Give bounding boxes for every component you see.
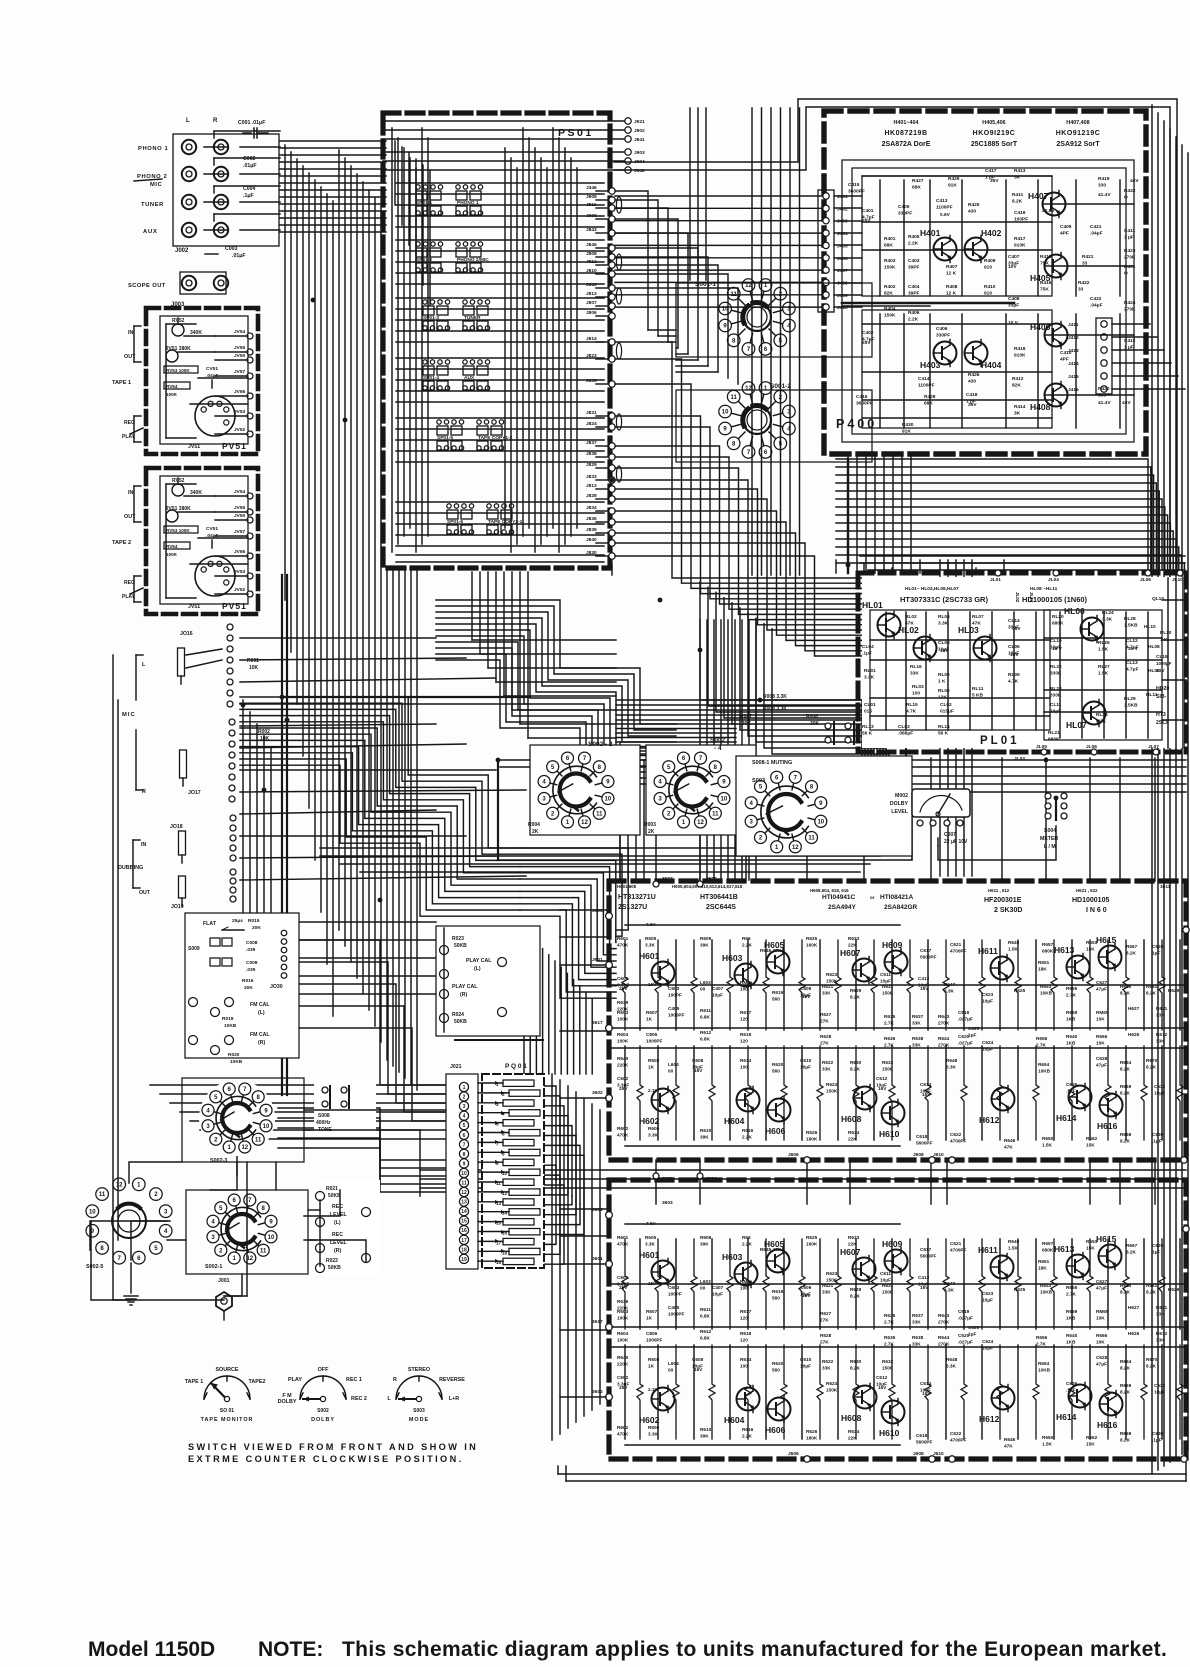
svg-text:2.1V: 2.1V (648, 1088, 659, 1093)
svg-text:O: O (1124, 195, 1128, 201)
svg-text:R008 3.3K: R008 3.3K (763, 706, 787, 712)
svg-text:H627: H627 (1128, 1305, 1140, 1310)
svg-text:R431: R431 (1124, 264, 1136, 270)
svg-text:C403: C403 (908, 258, 920, 264)
svg-text:R634: R634 (848, 1429, 860, 1434)
svg-text:R666: R666 (1096, 1034, 1108, 1039)
svg-text:3: 3 (463, 1104, 466, 1110)
svg-text:R612: R612 (700, 1030, 712, 1035)
svg-text:150K: 150K (884, 313, 896, 319)
muting connector pins (825, 723, 831, 729)
svg-text:R411: R411 (1012, 192, 1024, 198)
svg-text:R404: R404 (884, 306, 896, 312)
svg-text:C003: C003 (225, 246, 238, 252)
svg-text:27K: 27K (820, 1041, 829, 1046)
PV51 tape 2 inner box (160, 476, 248, 604)
svg-text:J609: J609 (706, 876, 717, 882)
svg-text:J845: J845 (586, 242, 597, 248)
svg-text:47K: 47K (1004, 1444, 1013, 1449)
svg-text:015μF: 015μF (940, 709, 954, 715)
svg-text:J903: J903 (634, 150, 645, 156)
wire bundle midfield over rotaries to meter (616, 700, 906, 789)
svg-text:HT313271U: HT313271U (618, 894, 656, 901)
svg-text:25V: 25V (619, 1385, 628, 1390)
svg-text:J021: J021 (450, 1064, 462, 1070)
svg-text:C417: C417 (985, 168, 997, 174)
svg-text:1KB: 1KB (1066, 1041, 1076, 1046)
transistor H403 (934, 342, 957, 365)
svg-text:160K: 160K (806, 1242, 818, 1247)
svg-text:R002: R002 (258, 729, 270, 735)
svg-text:C632: C632 (1154, 1383, 1166, 1388)
svg-text:C617: C617 (920, 948, 932, 953)
svg-text:R662: R662 (1086, 1136, 1098, 1141)
svg-text:J610: J610 (706, 1176, 717, 1182)
svg-text:LEVEL: LEVEL (330, 1212, 348, 1218)
pot RV52 tape 2 (172, 484, 184, 496)
svg-text:120: 120 (740, 1039, 748, 1044)
svg-text:HF200301E: HF200301E (984, 897, 1022, 904)
J021 connector (446, 1074, 478, 1269)
svg-text:10K: 10K (1096, 1017, 1105, 1022)
svg-text:12: 12 (241, 1145, 248, 1151)
svg-text:R: R (393, 1377, 397, 1383)
svg-text:R644: R644 (938, 1036, 950, 1041)
svg-text:150K: 150K (884, 265, 896, 271)
svg-text:L603: L603 (700, 980, 711, 985)
svg-text:1K: 1K (646, 1017, 653, 1022)
svg-text:1μF: 1μF (968, 1033, 976, 1038)
svg-text:TAPE 1: TAPE 1 (185, 1379, 203, 1385)
svg-text:RL15: RL15 (906, 702, 918, 708)
svg-text:.04μF: .04μF (1090, 303, 1103, 309)
svg-text:R650: R650 (1042, 1435, 1054, 1440)
svg-text:HL02: HL02 (898, 625, 919, 635)
svg-text:16 V: 16 V (1052, 646, 1063, 652)
amplifier channel dashed box y1180 (609, 1180, 1186, 1459)
svg-text:C409: C409 (1060, 224, 1072, 230)
svg-text:R609: R609 (700, 936, 712, 941)
transistor HL07 (1083, 702, 1106, 725)
svg-text:3.3K: 3.3K (864, 675, 875, 681)
transistor H616 (1100, 1094, 1123, 1117)
svg-text:1K: 1K (648, 1364, 655, 1369)
svg-text:41.4V: 41.4V (1098, 400, 1111, 406)
transistor H613b (1067, 1255, 1090, 1278)
P400 inner wire frames (842, 160, 1134, 442)
svg-text:44V: 44V (1122, 400, 1131, 406)
svg-text:33K: 33K (1156, 1338, 1165, 1343)
svg-text:10KB: 10KB (1038, 1368, 1051, 1373)
wire bundle staircase to PL01 bottom (700, 582, 862, 756)
svg-text:REVERSE: REVERSE (439, 1377, 465, 1383)
svg-text:J808: J808 (586, 251, 597, 257)
svg-text:J839: J839 (586, 527, 597, 533)
svg-text:340K: 340K (190, 330, 202, 336)
svg-text:H616: H616 (1097, 1121, 1118, 1131)
svg-text:8.2K: 8.2K (1120, 1067, 1131, 1072)
rotary switch S002-5 (133, 1178, 146, 1191)
svg-text:R601: R601 (617, 936, 629, 941)
svg-text:(R): (R) (334, 1248, 341, 1254)
PV51 head block tape 2 dashed box (146, 468, 258, 614)
svg-text:150K: 150K (826, 1388, 838, 1393)
svg-text:NOTE:: NOTE: (258, 1638, 323, 1661)
svg-text:C624: C624 (982, 1339, 994, 1344)
svg-text:H610: H610 (879, 1428, 900, 1438)
svg-text:10μF: 10μF (712, 993, 723, 998)
terminal column JO30 (281, 930, 287, 936)
svg-text:C617: C617 (920, 1247, 932, 1252)
svg-text:FM CAL: FM CAL (250, 1032, 270, 1038)
svg-text:2.7K: 2.7K (1036, 1342, 1047, 1347)
svg-text:J843: J843 (586, 282, 597, 288)
pot RV51 tape 2 (166, 510, 178, 522)
svg-text:R421: R421 (1082, 254, 1094, 260)
svg-text:R418: R418 (1014, 346, 1026, 352)
svg-text:20K: 20K (244, 985, 253, 991)
svg-text:12: 12 (116, 1182, 123, 1188)
svg-text:15K: 15K (1086, 1442, 1095, 1447)
svg-text:50KB: 50KB (328, 1193, 341, 1199)
svg-text:(L): (L) (474, 966, 481, 972)
svg-text:J824: J824 (586, 421, 597, 427)
svg-text:R020: R020 (228, 1052, 240, 1058)
svg-text:3602: 3602 (592, 1090, 603, 1096)
svg-text:C408: C408 (1008, 296, 1020, 302)
PS01 top terminals J921-J842 (625, 118, 631, 124)
svg-text:33K: 33K (1156, 1312, 1165, 1317)
svg-text:270K: 270K (938, 1320, 950, 1325)
svg-text:R640: R640 (617, 1355, 629, 1360)
svg-text:R643: R643 (938, 1313, 950, 1318)
rotary switch S002-4 (676, 774, 706, 807)
svg-text:680K: 680K (1042, 949, 1054, 954)
svg-text:10μF: 10μF (1154, 1390, 1165, 1395)
svg-text:R001: R001 (247, 658, 259, 664)
svg-text:18K: 18K (1038, 1266, 1047, 1271)
connector S004 (1045, 793, 1051, 799)
svg-text:R662: R662 (1086, 1435, 1098, 1440)
svg-text:120: 120 (740, 1316, 748, 1321)
svg-text:C618: C618 (916, 1433, 928, 1438)
svg-text:JL10: JL10 (1172, 577, 1183, 583)
svg-text:560: 560 (772, 1069, 780, 1074)
svg-text:7: 7 (463, 1142, 466, 1148)
svg-text:R656: R656 (1036, 1036, 1048, 1041)
wire bundle amp1 bottom to amp2 top (655, 1160, 657, 1204)
svg-text:19: 19 (461, 1257, 467, 1263)
transistor H608b (854, 1386, 877, 1409)
svg-text:S003: S003 (413, 1408, 425, 1414)
svg-text:R605: R605 (645, 936, 657, 941)
svg-text:68K: 68K (912, 185, 921, 191)
meter terminals (917, 820, 923, 826)
wire bundle mid-left horizontals to rotaries (150, 1084, 446, 1086)
svg-text:J601: J601 (592, 957, 603, 963)
svg-text:25V: 25V (619, 1086, 628, 1091)
svg-text:R644: R644 (938, 1335, 950, 1340)
wire bundle between amps (420, 1169, 1186, 1171)
svg-text:J806: J806 (586, 310, 597, 316)
svg-text:H405,406: H405,406 (982, 120, 1005, 126)
svg-text:IN: IN (141, 842, 146, 848)
svg-text:C624: C624 (982, 1040, 994, 1045)
transistor H408 (1045, 384, 1068, 407)
svg-text:91K: 91K (902, 429, 911, 435)
svg-text:MIC: MIC (150, 182, 163, 188)
svg-text:25V: 25V (862, 218, 871, 224)
svg-text:H610: H610 (879, 1129, 900, 1139)
resistor RV54 tape 1 (164, 382, 190, 389)
svg-text:I N 6 0: I N 6 0 (1086, 907, 1107, 914)
svg-text:HL08: HL08 (1148, 644, 1160, 650)
svg-text:1000PF: 1000PF (646, 1338, 663, 1343)
svg-text:R610: R610 (700, 1427, 712, 1432)
svg-text:H606: H606 (765, 1126, 786, 1136)
meter M002 (912, 789, 970, 817)
svg-text:REC 1: REC 1 (346, 1377, 362, 1383)
svg-text:CL13: CL13 (1126, 660, 1138, 666)
svg-text:R628: R628 (820, 1333, 832, 1338)
transistor H601b (652, 1261, 675, 1284)
transistor H608 (854, 1087, 877, 1110)
svg-text:33K: 33K (912, 1342, 921, 1347)
svg-text:R657: R657 (1042, 1241, 1054, 1246)
svg-text:O: O (1124, 271, 1128, 277)
svg-text:R405: R405 (908, 234, 920, 240)
svg-text:C628: C628 (1096, 1056, 1108, 1061)
wire bundle jack columns down (284, 145, 286, 600)
svg-text:R614: R614 (740, 1058, 752, 1063)
svg-text:30K: 30K (742, 721, 752, 727)
svg-text:R638: R638 (912, 1335, 924, 1340)
svg-text:16V: 16V (802, 994, 811, 999)
svg-text:10: 10 (817, 819, 824, 825)
svg-text:2SA872A DorE: 2SA872A DorE (882, 141, 931, 148)
svg-text:2.2K: 2.2K (742, 943, 753, 948)
transistor H604 (737, 1089, 760, 1112)
wire bundle PS01 bottom verticals to stair (471, 572, 473, 640)
svg-text:HT307331C (2SC733 GR): HT307331C (2SC733 GR) (900, 595, 988, 604)
svg-text:100K: 100K (617, 1338, 629, 1343)
PL01 interior mask (862, 577, 1182, 748)
svg-text:3.3K: 3.3K (946, 1364, 957, 1369)
head socket JV51 tape 1 (195, 396, 235, 436)
svg-text:27K: 27K (820, 1340, 829, 1345)
svg-text:C627: C627 (1096, 1279, 1108, 1284)
svg-text:(R): (R) (460, 992, 467, 998)
svg-text:J608: J608 (913, 1451, 924, 1457)
amp component verticals y1180 (622, 1239, 628, 1329)
svg-text:560: 560 (772, 997, 780, 1002)
svg-text:R609: R609 (700, 1235, 712, 1240)
terminal strip J401-J410 (818, 190, 834, 312)
svg-text:27K: 27K (820, 1019, 829, 1024)
svg-text:R618: R618 (740, 1032, 752, 1037)
svg-text:3603: 3603 (592, 908, 603, 914)
svg-text:10μF: 10μF (982, 1298, 993, 1303)
amp bottom terminals y1180 (804, 1456, 810, 1462)
svg-text:1.5K: 1.5K (1008, 947, 1019, 952)
svg-text:R016: R016 (242, 978, 254, 984)
svg-text:120: 120 (740, 1338, 748, 1343)
svg-text:This schematic diagram applies: This schematic diagram applies to units … (342, 1638, 1167, 1661)
svg-text:J828: J828 (586, 493, 597, 499)
terminals JV52-JV57 tape 2 (247, 493, 253, 499)
transistor H612 (992, 1088, 1015, 1111)
svg-text:10: 10 (721, 797, 728, 803)
svg-text:J610: J610 (933, 1451, 944, 1457)
svg-text:J002: J002 (175, 248, 189, 254)
PV51 tape 2 interior wires (166, 483, 196, 485)
svg-text:340K: 340K (190, 490, 202, 496)
svg-text:JV57: JV57 (234, 369, 246, 375)
svg-text:J412: J412 (1068, 335, 1079, 341)
PV51 tape 1 interior wires (166, 323, 196, 325)
PL01 dashed border (858, 571, 1186, 576)
wire bundle below PL01 (500, 759, 1186, 761)
svg-text:R654: R654 (1038, 1361, 1050, 1366)
svg-text:S002: S002 (710, 737, 726, 744)
svg-text:JL02: JL02 (1015, 592, 1020, 603)
svg-text:8.2K: 8.2K (1126, 1250, 1137, 1255)
svg-text:2.2K: 2.2K (742, 1434, 753, 1439)
gauge S003 MODE (396, 1376, 442, 1399)
svg-text:R415: R415 (1040, 254, 1052, 260)
transistor H616b (1100, 1393, 1123, 1416)
svg-text:33K: 33K (822, 991, 831, 996)
svg-text:10K: 10K (260, 736, 270, 742)
svg-text:50KB: 50KB (454, 1019, 467, 1025)
svg-text:H607: H607 (840, 1247, 861, 1257)
svg-text:C611: C611 (880, 1271, 891, 1276)
svg-text:JO17: JO17 (188, 790, 201, 796)
svg-text:R636: R636 (884, 1335, 896, 1340)
svg-text:J813: J813 (586, 483, 597, 489)
transistor H602b (652, 1388, 675, 1411)
svg-text:R643: R643 (938, 1014, 950, 1019)
svg-text:11: 11 (808, 836, 815, 842)
svg-text:3603: 3603 (662, 1200, 673, 1206)
svg-text:JV57: JV57 (234, 529, 246, 535)
svg-text:3K: 3K (1014, 411, 1021, 417)
svg-text:3.3K: 3.3K (1096, 719, 1107, 725)
svg-text:QL10: QL10 (1152, 596, 1164, 602)
svg-text:2.2K: 2.2K (908, 317, 919, 323)
svg-text:JV53: JV53 (234, 409, 246, 415)
svg-text:270K: 270K (938, 1021, 950, 1026)
svg-text:JO19: JO19 (171, 904, 184, 910)
svg-text:2SA842GR: 2SA842GR (884, 904, 918, 911)
svg-text:J814: J814 (586, 336, 597, 342)
svg-text:27K: 27K (820, 1318, 829, 1323)
svg-text:47μF: 47μF (1096, 1362, 1107, 1367)
svg-text:2K: 2K (648, 829, 655, 835)
svg-text:RV51 380K: RV51 380K (165, 346, 191, 352)
transistor H605b (767, 1250, 790, 1273)
svg-text:75K: 75K (1040, 261, 1049, 267)
svg-text:J838: J838 (586, 451, 597, 457)
svg-text:.01μF: .01μF (232, 253, 246, 259)
svg-text:H401~404: H401~404 (893, 120, 918, 126)
svg-text:R402: R402 (884, 284, 896, 290)
svg-text:CV51: CV51 (206, 526, 218, 532)
svg-text:CV51: CV51 (206, 366, 218, 372)
svg-text:10K: 10K (249, 665, 259, 671)
svg-text:20K: 20K (252, 925, 261, 931)
svg-text:.027μF: .027μF (958, 1340, 973, 1345)
svg-text:J807: J807 (586, 300, 597, 306)
svg-text:3.3K: 3.3K (645, 1242, 656, 1247)
svg-text:C422: C422 (1090, 296, 1102, 302)
svg-text:CL12: CL12 (1126, 638, 1138, 644)
svg-text:REC: REC (332, 1232, 343, 1238)
gauge S002 DOLBY (300, 1376, 346, 1399)
svg-text:12 K: 12 K (946, 271, 957, 277)
svg-text:J921: J921 (634, 119, 645, 125)
svg-text:R412: R412 (1012, 376, 1024, 382)
svg-text:H603: H603 (722, 953, 743, 963)
svg-text:R620: R620 (772, 1062, 784, 1067)
svg-text:C407: C407 (712, 986, 724, 991)
svg-text:12: 12 (792, 845, 799, 851)
svg-text:R624: R624 (826, 1082, 838, 1087)
jack block J002 (173, 134, 279, 246)
gauge S001 TAPE MONITOR (204, 1376, 250, 1399)
wire bundle PS01 to P400 gap verticals (689, 108, 691, 280)
svg-text:3617: 3617 (592, 1319, 603, 1325)
svg-text:C628: C628 (1096, 1355, 1108, 1360)
svg-text:100K: 100K (617, 1316, 629, 1321)
svg-text:FLAT: FLAT (203, 921, 217, 927)
wire bundle J8xx fanout right upper (615, 191, 648, 330)
svg-text:C418: C418 (966, 392, 978, 398)
svg-text:H627: H627 (1128, 1006, 1140, 1011)
svg-text:R424: R424 (1124, 300, 1136, 306)
svg-text:C401: C401 (862, 208, 874, 214)
svg-text:910: 910 (984, 265, 992, 271)
svg-text:33K: 33K (912, 1043, 921, 1048)
svg-text:J836: J836 (586, 516, 597, 522)
svg-text:C416: C416 (856, 394, 868, 400)
transistor H406 (1045, 324, 1068, 347)
svg-text:91K: 91K (948, 183, 957, 189)
svg-text:M002: M002 (895, 793, 908, 799)
svg-text:R634: R634 (848, 1130, 860, 1135)
svg-text:R422: R422 (1078, 280, 1090, 286)
svg-text:TAPE MONITOR: TAPE MONITOR (201, 1417, 254, 1423)
svg-text:S003: S003 (752, 778, 765, 784)
svg-text:40.8V: 40.8V (1042, 208, 1055, 214)
svg-text:10K: 10K (1096, 1316, 1105, 1321)
svg-text:11: 11 (255, 1137, 262, 1143)
svg-text:2.7K: 2.7K (884, 1342, 895, 1347)
svg-text:SCOPE OUT: SCOPE OUT (128, 283, 166, 289)
rotary switch S002-1 frame (186, 1190, 308, 1274)
PL01 inner wires (870, 610, 1050, 730)
wire bundle jacks to PS01 (280, 140, 386, 142)
svg-text:25μs: 25μs (232, 918, 243, 924)
switch SP01-6 TAPE COPY 2-1 (447, 510, 458, 519)
svg-text:6.8K: 6.8K (700, 1336, 711, 1341)
svg-text:S002-3: S002-3 (210, 1158, 227, 1164)
svg-text:.039: .039 (246, 967, 256, 973)
pot RV51 tape 1 (166, 350, 178, 362)
svg-text:2K: 2K (532, 829, 539, 835)
svg-text:R022: R022 (326, 1258, 338, 1264)
svg-text:H603: H603 (722, 1252, 743, 1262)
